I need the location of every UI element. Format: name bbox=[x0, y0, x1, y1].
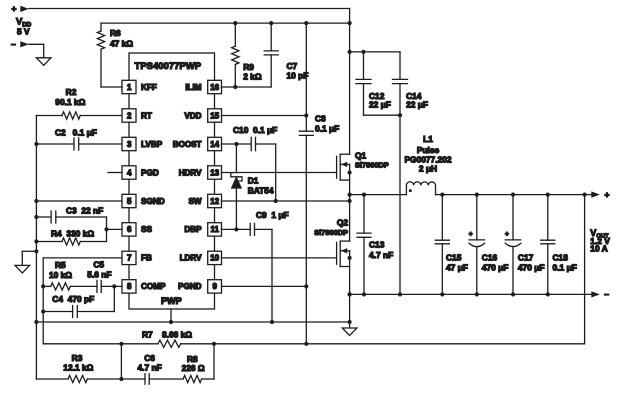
svg-text:D1: D1 bbox=[248, 176, 259, 186]
svg-text:226 Ω: 226 Ω bbox=[182, 363, 205, 373]
svg-text:R4 330 kΩ: R4 330 kΩ bbox=[51, 229, 94, 239]
capacitor C9 bbox=[221, 223, 272, 322]
svg-text:10: 10 bbox=[210, 254, 219, 263]
label C3 22nF bbox=[66, 205, 103, 215]
wire analog ground bus bbox=[34, 320, 349, 324]
svg-text:R2: R2 bbox=[66, 87, 77, 97]
svg-text:5: 5 bbox=[127, 197, 132, 206]
svg-text:4.7 nF: 4.7 nF bbox=[369, 250, 393, 260]
node VDD input - terminal bbox=[11, 39, 29, 49]
svg-text:13: 13 bbox=[210, 168, 219, 177]
svg-text:9: 9 bbox=[212, 282, 217, 291]
svg-text:PGD: PGD bbox=[141, 168, 159, 177]
svg-text:PGND: PGND bbox=[178, 282, 202, 291]
svg-text:47 μF: 47 μF bbox=[446, 262, 468, 272]
svg-text:R6: R6 bbox=[110, 28, 121, 38]
svg-text:HDRV: HDRV bbox=[179, 168, 202, 177]
svg-text:22 μF: 22 μF bbox=[369, 100, 391, 110]
wire SW pin12 bbox=[221, 199, 351, 203]
svg-text:2: 2 bbox=[127, 111, 132, 120]
svg-text:BAT54: BAT54 bbox=[248, 186, 274, 196]
label L1 Pulse PG0077.202 2uH bbox=[404, 134, 451, 173]
capacitor C10 bbox=[221, 137, 277, 203]
svg-text:+: + bbox=[12, 4, 17, 14]
svg-text:8: 8 bbox=[127, 282, 132, 291]
label R3 12.1k bbox=[63, 353, 93, 373]
resistor R7 bbox=[158, 340, 181, 347]
label R4 330k bbox=[51, 229, 94, 239]
capacitor C17 (polarized) bbox=[505, 195, 521, 295]
capacitor C6 bbox=[121, 374, 183, 385]
wire SGND pin5 bbox=[34, 199, 122, 203]
transistor Q2 Si7860DP bbox=[337, 241, 352, 322]
capacitor C16 (polarized) bbox=[469, 195, 485, 295]
IC pin boxes and numbers bbox=[122, 80, 222, 293]
label R5 10k bbox=[49, 260, 72, 280]
svg-text:2 kΩ: 2 kΩ bbox=[243, 72, 262, 82]
label C18 0.1uF bbox=[553, 253, 577, 273]
wire VDD top bus bbox=[29, 8, 350, 10]
label R9 2k bbox=[243, 62, 262, 81]
wire PGND pin9 bbox=[221, 284, 308, 288]
resistor R8 bbox=[183, 344, 214, 383]
capacitor C2 bbox=[34, 138, 122, 150]
label R6 47 k bbox=[110, 28, 133, 48]
svg-text:TPS40077PWP: TPS40077PWP bbox=[135, 61, 202, 72]
svg-text:BOOST: BOOST bbox=[173, 140, 202, 149]
svg-text:SGND: SGND bbox=[141, 197, 165, 206]
ground G1 (input) bbox=[36, 58, 51, 66]
wire divider link bbox=[119, 344, 123, 381]
wire SW node bbox=[348, 193, 407, 197]
resistor R2 bbox=[36, 112, 122, 119]
svg-text:C9 1 μF: C9 1 μF bbox=[256, 210, 289, 220]
svg-text:–: – bbox=[604, 289, 609, 299]
svg-text:11: 11 bbox=[210, 225, 219, 234]
wire LDRV pin10 bbox=[221, 257, 336, 259]
svg-text:15: 15 bbox=[210, 111, 219, 120]
svg-text:10 kΩ: 10 kΩ bbox=[49, 270, 72, 280]
svg-text:LDRV: LDRV bbox=[180, 254, 202, 263]
label VOUT 1.2V 10A bbox=[590, 228, 610, 254]
svg-text:4: 4 bbox=[127, 168, 132, 177]
svg-text:3: 3 bbox=[127, 140, 132, 149]
wire 5V sub-bus (R6/R9/C7/VDD) bbox=[101, 21, 352, 25]
label R2 90.1k bbox=[55, 87, 85, 107]
svg-text:C3 22 nF: C3 22 nF bbox=[66, 205, 103, 215]
label VDD 5V source bbox=[16, 16, 32, 37]
svg-text:Si7860DP: Si7860DP bbox=[314, 228, 348, 237]
label Q1 bbox=[355, 151, 389, 170]
svg-text:0.1 μF: 0.1 μF bbox=[315, 124, 339, 134]
svg-text:Si7860DP: Si7860DP bbox=[355, 160, 389, 169]
resistor R4 bbox=[34, 238, 106, 245]
capacitor C5 bbox=[97, 280, 122, 292]
wire PWP pad to ground bbox=[170, 309, 172, 322]
wire VDD pin15 bbox=[221, 113, 308, 117]
capacitor C18 bbox=[541, 195, 555, 295]
capacitor C14 bbox=[393, 52, 408, 295]
svg-text:10 A: 10 A bbox=[590, 244, 607, 254]
svg-text:SW: SW bbox=[188, 197, 201, 206]
svg-text:KFF: KFF bbox=[141, 83, 157, 92]
svg-text:ILIM: ILIM bbox=[185, 83, 201, 92]
svg-text:5.6 nF: 5.6 nF bbox=[87, 269, 111, 279]
svg-text:14: 14 bbox=[210, 140, 219, 149]
svg-text:Q2: Q2 bbox=[337, 218, 349, 228]
svg-text:C10 0.1 μF: C10 0.1 μF bbox=[233, 125, 277, 135]
label C17 470uF bbox=[518, 253, 545, 273]
svg-text:7: 7 bbox=[127, 254, 132, 263]
svg-text:Q1: Q1 bbox=[355, 151, 367, 161]
capacitor C7 bbox=[264, 23, 278, 87]
svg-text:SS: SS bbox=[141, 225, 152, 234]
wire ILIM pin16 bbox=[221, 85, 271, 89]
label C13 4.7nF bbox=[369, 240, 393, 260]
capacitor C4 bbox=[41, 286, 114, 317]
svg-text:–: – bbox=[11, 39, 16, 49]
svg-text:C4 470 pF: C4 470 pF bbox=[52, 294, 94, 304]
capacitor C3 bbox=[34, 211, 106, 223]
label C9 1uF bbox=[256, 210, 289, 220]
wire KFF pin1 bbox=[101, 86, 122, 88]
svg-text:C2 0.1 μF: C2 0.1 μF bbox=[55, 128, 97, 138]
wire R7 to VOUT sense bbox=[181, 195, 585, 346]
inductor L1 bbox=[406, 182, 435, 195]
label R7 8.66k bbox=[142, 330, 192, 340]
wire input cap bottom bbox=[364, 113, 403, 117]
label C5 5.6nF bbox=[87, 260, 111, 280]
svg-text:C15: C15 bbox=[446, 253, 462, 263]
svg-text:C6: C6 bbox=[144, 353, 155, 363]
svg-text:DBP: DBP bbox=[184, 225, 202, 234]
label C14 22uF bbox=[406, 91, 428, 110]
resistor R5 bbox=[41, 283, 97, 290]
svg-text:+: + bbox=[605, 189, 610, 199]
svg-text:RT: RT bbox=[141, 111, 152, 120]
svg-text:C8: C8 bbox=[315, 113, 326, 123]
svg-text:2 μH: 2 μH bbox=[419, 163, 437, 173]
node VOUT + terminal bbox=[591, 189, 609, 199]
wire HDRV pin13 bbox=[221, 172, 336, 174]
wire VOUT+ rail bbox=[436, 193, 592, 197]
wire left ground rail bbox=[35, 116, 37, 380]
svg-text:10 pF: 10 pF bbox=[287, 71, 309, 81]
label C2 0.1uF bbox=[55, 128, 97, 138]
label C15 47uF bbox=[446, 253, 468, 273]
svg-text:R7 8.66 kΩ: R7 8.66 kΩ bbox=[142, 330, 192, 340]
wire FB pin7 bbox=[43, 258, 122, 344]
capacitor C12 bbox=[356, 52, 371, 115]
svg-text:470 μF: 470 μF bbox=[518, 262, 545, 272]
svg-text:5 V: 5 V bbox=[17, 26, 30, 36]
svg-text:C18: C18 bbox=[553, 253, 569, 263]
svg-text:22 μF: 22 μF bbox=[406, 100, 428, 110]
svg-text:1: 1 bbox=[127, 83, 132, 92]
svg-text:PWP: PWP bbox=[161, 296, 182, 306]
svg-text:470 μF: 470 μF bbox=[482, 262, 509, 272]
svg-text:C16: C16 bbox=[482, 253, 498, 263]
wire PGND rail bbox=[348, 292, 592, 296]
capacitor C13 bbox=[357, 195, 371, 295]
svg-text:FB: FB bbox=[141, 254, 152, 263]
resistor R3 bbox=[36, 375, 121, 382]
op IC U1 TPS40077PWP body bbox=[129, 53, 215, 309]
label C8 0.1uF bbox=[315, 113, 339, 133]
svg-text:C17: C17 bbox=[518, 253, 534, 263]
svg-text:LVBP: LVBP bbox=[141, 140, 163, 149]
svg-text:R5: R5 bbox=[55, 260, 66, 270]
svg-text:C5: C5 bbox=[93, 260, 104, 270]
node VOUT - terminal bbox=[591, 289, 609, 299]
label C6 4.7nF bbox=[137, 353, 161, 373]
wire minus terminal to ground bbox=[29, 44, 44, 58]
svg-text:COMP: COMP bbox=[141, 282, 166, 291]
wire input cap top bbox=[348, 9, 401, 155]
ground G2 (analog) bbox=[15, 249, 39, 273]
svg-text:90.1 kΩ: 90.1 kΩ bbox=[55, 97, 85, 107]
label C4 470pF bbox=[52, 294, 94, 304]
label C10 0.1uF bbox=[233, 125, 277, 135]
svg-text:12.1 kΩ: 12.1 kΩ bbox=[63, 363, 93, 373]
svg-text:6: 6 bbox=[127, 225, 132, 234]
svg-text:12: 12 bbox=[210, 197, 219, 206]
transistor Q1 Si7860DP bbox=[337, 154, 352, 241]
svg-text:VDD: VDD bbox=[184, 111, 201, 120]
resistor R6 bbox=[97, 23, 104, 87]
wire PGD stub pin4 bbox=[108, 172, 122, 174]
label D1 BAT54 bbox=[248, 176, 274, 196]
ground G3 (power) bbox=[342, 328, 357, 336]
capacitor C8 bbox=[299, 23, 313, 344]
svg-text:R3: R3 bbox=[72, 353, 83, 363]
svg-text:L1: L1 bbox=[423, 134, 433, 144]
svg-text:47 kΩ: 47 kΩ bbox=[110, 39, 133, 49]
capacitor C15 bbox=[435, 195, 449, 295]
wire FB divider node bbox=[43, 342, 158, 346]
wire SS pin6 link bbox=[104, 217, 122, 242]
diode D1 BAT54 bbox=[231, 144, 242, 231]
label R8 226 bbox=[182, 354, 205, 373]
node VDD input + terminal bbox=[12, 4, 29, 14]
resistor R9 bbox=[232, 23, 239, 87]
label C12 22uF bbox=[369, 91, 391, 110]
svg-text:C13: C13 bbox=[369, 240, 385, 250]
svg-text:0.1 μF: 0.1 μF bbox=[553, 262, 577, 272]
svg-text:+: + bbox=[505, 231, 509, 238]
label Q2 bbox=[314, 218, 348, 238]
label C7 10pF bbox=[287, 61, 309, 80]
label C16 470uF bbox=[482, 253, 509, 273]
svg-text:16: 16 bbox=[210, 83, 219, 92]
svg-text:+: + bbox=[469, 231, 473, 238]
svg-text:4.7 nF: 4.7 nF bbox=[137, 363, 161, 373]
wire Q2 source to ground bbox=[348, 292, 352, 328]
